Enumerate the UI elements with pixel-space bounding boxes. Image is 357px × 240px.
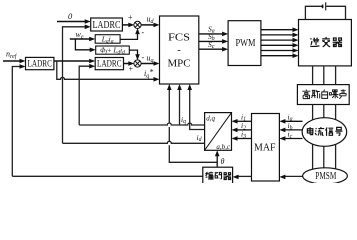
label current hanzi liu — [315, 127, 324, 136]
svg-text:d,q: d,q — [206, 114, 215, 122]
summing junction J1 — [134, 21, 141, 28]
svg-text:LADRC: LADRC — [27, 59, 52, 69]
svg-text:θ: θ — [221, 157, 225, 166]
svg-text:+: + — [129, 65, 134, 74]
wire encoder to left speed line — [12, 175, 203, 177]
block MAF — [252, 114, 280, 182]
label encoder hanzi qi2 — [223, 173, 231, 180]
label inverter hanzi qi — [333, 38, 342, 46]
wire iq tap to FCS-MPC — [179, 89, 181, 126]
label noise hanzi sheng — [339, 89, 346, 98]
wire i1 MAF to dq — [236, 120, 252, 122]
wire id feedback vertical to LADRC1 — [63, 27, 86, 144]
svg-text:PMSM: PMSM — [315, 171, 336, 182]
wire ic to MAF — [284, 138, 303, 140]
wire inverter to noise 3 lines — [313, 66, 336, 85]
label noise hanzi si — [311, 90, 319, 98]
block LADRC1 — [91, 18, 123, 31]
wire iq feedback to LADRC2 — [79, 66, 90, 125]
wire nref to LADRC0 — [3, 60, 21, 62]
svg-text:MAF: MAF — [254, 143, 276, 154]
wire Lqiq out up to J1 — [120, 33, 137, 40]
wire theta tap to FCS-MPC with hops — [169, 89, 217, 163]
label encoder hanzi ma — [215, 172, 222, 178]
wire MAF shaft pass to encoder — [237, 175, 252, 177]
svg-text:Φf+ Ldid: Φf+ Ldid — [100, 47, 125, 56]
svg-text:-: - — [177, 45, 181, 56]
svg-text:a,b,c: a,b,c — [216, 143, 231, 151]
wire id upper from dq block to FCS-MPC — [190, 89, 205, 130]
summing junction J2 — [134, 60, 141, 67]
wire Sa — [199, 33, 224, 35]
wire iq line from dq block with hops — [79, 123, 204, 125]
wire iqstar LADRC0 out to LADRC2 — [54, 60, 91, 62]
wire Sc — [199, 48, 224, 50]
wire Sb — [199, 40, 224, 42]
block LADRC0 — [26, 57, 54, 69]
wire speed feedback to LADRC0 — [12, 67, 21, 177]
wire we to Lqiq — [70, 38, 91, 40]
wire i2 MAF to dq — [236, 129, 252, 131]
node PMSM ellipse — [303, 168, 348, 184]
svg-text:LADRC: LADRC — [97, 59, 122, 69]
label noise hanzi zao — [329, 90, 338, 99]
wire DC bus loop — [305, 6, 345, 19]
block FCS-MPC — [160, 16, 199, 84]
label encoder hanzi bian2 — [206, 172, 214, 180]
svg-text:FCS: FCS — [168, 33, 190, 44]
battery V1 — [323, 2, 326, 10]
wire PMSM shaft to MAF — [284, 175, 303, 177]
block PhiF plus Ldid — [96, 46, 130, 56]
wire PWM gate lines 6 — [261, 30, 294, 56]
wire i3 MAF to dq — [236, 138, 252, 140]
wire decoupling out down to J2 — [129, 50, 137, 56]
svg-text:-: - — [142, 28, 145, 37]
label noise hanzi gao — [302, 90, 310, 99]
label current hanzi dian — [307, 127, 312, 135]
label inverter hanzi ni — [310, 38, 319, 47]
wire noise to PMSM 3 lines — [313, 105, 336, 172]
label noise hanzi bai — [322, 90, 328, 99]
wire ud to FCS-MPC — [141, 24, 155, 26]
wire 0 to LADRC1 — [57, 21, 86, 23]
wire ib to MAF — [284, 129, 303, 131]
label current hanzi xin — [325, 127, 333, 135]
wire iqstar branch to FCS-MPC with hop — [57, 61, 155, 79]
wire id line from dq block with hop — [63, 141, 205, 143]
label inverter hanzi bian — [322, 37, 330, 47]
block Lqiq — [95, 35, 120, 45]
wire ia to MAF — [284, 120, 303, 122]
block dq abc transform — [205, 113, 232, 151]
block PWM — [228, 21, 261, 66]
svg-text:+: + — [128, 13, 133, 22]
svg-text:LADRC: LADRC — [93, 20, 121, 31]
svg-text:-: - — [142, 53, 145, 62]
wire theta encoder to dq — [216, 155, 218, 167]
block encoder — [203, 167, 233, 184]
wire LADRC1 out to summing junction — [122, 24, 130, 26]
block gaussian noise — [297, 85, 349, 105]
label current hanzi hao — [335, 127, 342, 135]
block inverter — [299, 20, 352, 66]
svg-text:PWM: PWM — [236, 38, 256, 49]
block LADRC2 — [95, 58, 123, 70]
svg-text:MPC: MPC — [168, 59, 191, 70]
wire LADRC2 out to J2 — [124, 63, 131, 65]
wire we branch to decoupling block — [75, 39, 91, 50]
wire uq to FCS-MPC — [141, 63, 155, 65]
node current signal ellipse — [302, 118, 347, 147]
